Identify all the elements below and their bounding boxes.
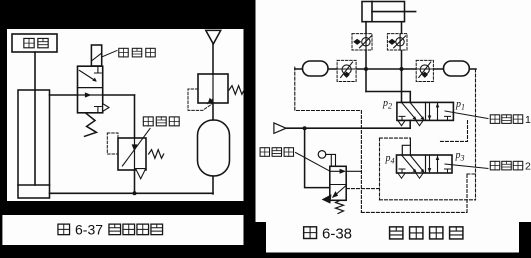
reducing valve body <box>118 138 146 170</box>
right speed control valve (dashed box) <box>416 60 433 81</box>
dashed pilot: tall right vertical from main line <box>475 69 477 200</box>
black scan border: bottom-right notch <box>519 222 531 258</box>
dashed pilot: bottom horizontal <box>361 211 467 213</box>
dashed pilot: horizontal into valve2 top <box>380 137 411 139</box>
reducing valve internal flow line with arrow <box>133 138 137 170</box>
solenoid coil symbol <box>91 45 101 66</box>
black scan border: top band left image <box>0 0 247 29</box>
right port speed control valve (dashed box) <box>387 34 407 50</box>
wire cylinder to solenoid valve <box>50 94 78 96</box>
dashed pilot: short segment right of valve1 <box>440 121 468 142</box>
dashed pilot: top-left corner path <box>295 67 362 110</box>
dashed pilot: vertical to valve2 pilot <box>379 138 381 200</box>
valve2 exhaust triangle b <box>416 173 423 178</box>
solenoid valve top chamber blocked port T <box>95 66 102 73</box>
wire left cylinder port down <box>365 22 367 92</box>
relief valve spring <box>229 86 244 95</box>
piston line <box>18 184 50 186</box>
dashed pilot: manual valve lower port to vertical <box>347 188 380 190</box>
right air reservoir capsule <box>444 61 470 76</box>
exhaust triangle (top right) <box>206 30 221 44</box>
wire down to reducing valve <box>134 95 136 138</box>
solenoid valve return spring <box>85 113 97 136</box>
label 电磁阀 <box>119 48 155 57</box>
solenoid valve bottom chamber flow arrow <box>78 93 103 97</box>
svg-text:6-38: 6-38 <box>322 226 352 243</box>
label 负载 <box>24 38 48 47</box>
manual valve body <box>330 166 346 200</box>
reducing valve pilot dashed box <box>107 133 118 154</box>
valve2 straight arrows right chamber <box>428 156 440 173</box>
manual valve exhaust triangle <box>323 195 332 203</box>
valve1 straight arrows right chamber <box>428 103 440 120</box>
wire air tank to bottom wire <box>212 176 214 194</box>
piston rod wire from load to piston <box>34 52 36 185</box>
manual valve spring <box>336 200 344 213</box>
svg-text:1: 1 <box>525 114 531 126</box>
reducing valve spring <box>149 150 164 159</box>
junction dot supply <box>303 126 307 130</box>
relief valve pilot dashed line <box>188 89 213 110</box>
valve1 crossed diagonals <box>402 103 425 120</box>
black scan border: bottom band right image <box>244 253 531 258</box>
leader line 电磁阀 <box>102 51 117 58</box>
supply riser to valve1 <box>409 120 411 128</box>
solenoid valve bottom chamber blocked port T <box>95 107 102 113</box>
dashed pilot: right lower vertical <box>466 174 468 212</box>
wire reducing valve to bottom junction <box>134 170 136 193</box>
reducing valve drain triangle <box>136 169 146 179</box>
solid hook into valve2 top ports <box>402 138 410 155</box>
cylinder (vertical) <box>18 90 50 198</box>
solenoid valve exhaust triangle <box>103 104 109 112</box>
svg-text:6-37: 6-37 <box>75 222 103 238</box>
wire down to manual valve <box>305 128 330 187</box>
caption 图 6-37 节能回路 <box>58 222 163 238</box>
black scan border: middle band below left diagram <box>0 201 244 215</box>
wire right cylinder port down to valve1 <box>401 22 403 103</box>
solenoid valve top chamber diagonal <box>80 71 97 82</box>
left speed control valve (dashed box) <box>337 60 356 81</box>
load box 负载 <box>12 34 57 52</box>
black scan border: thin left sliver beside caption <box>0 215 2 245</box>
manual valve bottom chamber diagonal <box>333 186 346 197</box>
valve1 exhaust triangle b <box>416 121 423 126</box>
directional valve 1 body <box>397 102 454 120</box>
manual valve button circle <box>318 151 326 159</box>
label 换向阀 2 <box>490 161 531 173</box>
wire jog above valve1 <box>366 92 410 103</box>
valve2 blocked port T left <box>399 169 405 173</box>
manual valve output wire <box>346 170 361 172</box>
leader line 手动阀 <box>296 153 330 172</box>
junction dot left port <box>364 67 368 71</box>
junction dot <box>133 191 137 195</box>
wire solenoid valve to reducing valve (horizontal) <box>103 94 135 96</box>
valve1 blocked port T left <box>399 116 405 120</box>
junction dot right port <box>400 67 404 71</box>
wire triangle to relief valve <box>212 44 214 74</box>
relief valve internal line with arrow <box>208 74 214 104</box>
directional valve 2 body <box>397 155 453 173</box>
manual valve top chamber arrow <box>331 170 345 173</box>
left port speed control valve (dashed box) <box>352 34 372 50</box>
dashed pilot: left vertical <box>360 111 362 213</box>
bottom wire <box>50 192 214 194</box>
valve2 divider <box>425 155 427 173</box>
cylinder rod <box>372 11 416 13</box>
valve1 divider <box>425 102 427 120</box>
label 减压阀 <box>143 117 179 126</box>
svg-text:2: 2 <box>525 161 531 173</box>
black scan border: left edge band <box>0 0 7 202</box>
dashed pilot: jog at 174 <box>467 173 476 175</box>
solenoid valve divider <box>78 87 103 89</box>
valve1 blocked port T right <box>445 116 451 120</box>
main air line (horizontal) <box>295 68 476 70</box>
relief valve body <box>198 74 228 103</box>
wire relief valve to air tank <box>212 103 214 120</box>
cylinder piston <box>371 2 373 22</box>
caption 图 6-38 振荡回路 <box>304 226 463 243</box>
black scan border: central vertical bar <box>244 0 256 253</box>
dashed pilot: mid horizontal p-line <box>380 199 476 201</box>
reducing valve adjustment arrow and label leader <box>122 129 150 167</box>
left air reservoir capsule <box>303 61 329 76</box>
valve1 exhaust triangle a <box>398 121 405 126</box>
leader line 换向阀2 <box>445 164 488 169</box>
manual valve divider <box>330 184 346 186</box>
valve2 exhaust triangle a <box>398 173 405 178</box>
label 换向阀 1 <box>490 114 531 126</box>
cylinder (horizontal, double acting) <box>362 2 405 22</box>
valve2 blocked port T right <box>445 169 451 173</box>
leader line 换向阀1 <box>445 111 488 119</box>
air tank (capsule) <box>198 120 230 176</box>
supply wire <box>286 127 410 129</box>
label 手动阀 <box>260 148 293 157</box>
valve2 crossed diagonals <box>402 156 425 173</box>
manual valve button stem <box>326 154 336 166</box>
solenoid valve U1 body <box>78 66 103 113</box>
black scan border: bottom band left image <box>0 245 244 258</box>
black scan border: widened lower bar block <box>244 222 267 258</box>
supply triangle (air source) <box>274 123 286 133</box>
